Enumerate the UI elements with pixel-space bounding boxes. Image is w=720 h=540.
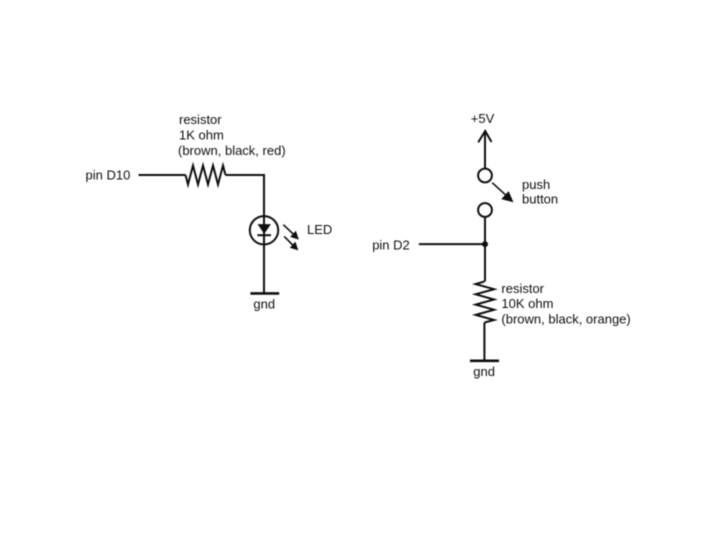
wire R2 to ground xyxy=(483,323,485,361)
svg-text:resistor: resistor xyxy=(501,281,544,296)
label R1 value xyxy=(178,112,286,158)
svg-text:10K ohm: 10K ohm xyxy=(501,296,553,311)
svg-text:gnd: gnd xyxy=(473,364,495,379)
LED D1 xyxy=(250,216,278,244)
push button S1 xyxy=(478,169,492,217)
svg-text:resistor: resistor xyxy=(179,112,222,127)
node junction dot xyxy=(482,241,488,247)
svg-text:pin D2: pin D2 xyxy=(372,237,410,252)
wire pin D10 to R1 xyxy=(139,174,186,176)
push button actuator arrow xyxy=(492,183,513,203)
svg-text:(brown, black, orange): (brown, black, orange) xyxy=(501,311,630,326)
resistor R2 xyxy=(476,282,495,323)
svg-text:LED: LED xyxy=(307,222,332,237)
wire pin D2 to node xyxy=(419,243,485,245)
svg-text:pin D10: pin D10 xyxy=(86,168,131,183)
wire switch to node xyxy=(484,217,486,282)
svg-text:1K ohm: 1K ohm xyxy=(179,128,224,143)
wire +5V arrow to switch xyxy=(484,132,486,169)
ground (right) xyxy=(470,359,499,362)
power +5V xyxy=(471,111,495,143)
svg-text:(brown, black, red): (brown, black, red) xyxy=(178,143,286,158)
resistor R1 xyxy=(186,166,226,185)
label push button xyxy=(522,177,558,206)
wire R1 to LED xyxy=(226,175,265,216)
svg-text:button: button xyxy=(522,191,558,206)
LED light arrows xyxy=(283,225,299,251)
label R2 value xyxy=(501,281,630,326)
svg-text:gnd: gnd xyxy=(253,296,275,311)
wire LED to ground xyxy=(263,244,265,293)
svg-text:push: push xyxy=(522,177,550,192)
svg-text:+5V: +5V xyxy=(471,111,495,126)
ground (left) xyxy=(250,292,279,295)
